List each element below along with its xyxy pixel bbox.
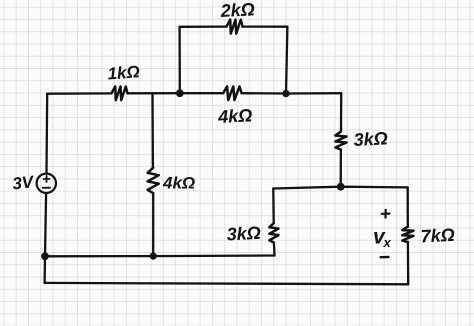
- node A (junction top rail / 2k loop left): [176, 89, 184, 97]
- resistor R6 3kΩ (vertical, bottom middle): [269, 223, 278, 243]
- wire: top rail left segment (corner to 1k resistor): [47, 92, 111, 95]
- wire: node D down to bottom rail: [43, 256, 46, 283]
- wire: 2k loop left vertical: [178, 27, 180, 93]
- wire: middle rail (left end to node C to right corner): [273, 187, 407, 189]
- wire: 2k loop top-left segment: [180, 25, 227, 27]
- svg-text:3kΩ: 3kΩ: [353, 128, 388, 150]
- wire: 7k lower lead up from bottom rail: [407, 242, 410, 284]
- wire: 3k right lower lead to node C: [340, 150, 342, 187]
- wire: top rail between node A and 4k horizontal: [180, 92, 223, 94]
- wire: 4k vertical branch upper lead: [151, 93, 154, 167]
- node E (junction lower rail / 4k vertical): [150, 253, 157, 260]
- resistor R5 3kΩ (vertical, right): [335, 132, 346, 150]
- svg-text:1kΩ: 1kΩ: [107, 62, 140, 83]
- wire: right branch corner down to 3k: [340, 93, 343, 131]
- node D (junction lower rail / source / bottom rail): [41, 252, 49, 260]
- resistor R1 1kΩ (horizontal, top-left): [112, 87, 128, 101]
- node B (junction top rail / 2k loop right): [282, 90, 289, 97]
- resistor R7 7kΩ (vertical, far right): [402, 227, 413, 243]
- node C (junction middle rail / 3k right): [337, 183, 345, 191]
- label vx minus sign: [381, 256, 389, 259]
- voltage source plus sign: [44, 176, 50, 182]
- label vx plus sign: [382, 210, 390, 218]
- svg-text:3V: 3V: [11, 172, 35, 193]
- wire: 2k loop top-right segment: [243, 25, 288, 27]
- resistor R4 2kΩ (horizontal, top loop): [227, 20, 243, 34]
- wire: 4k vertical branch lower lead to node E: [152, 193, 154, 256]
- svg-text:x: x: [383, 235, 392, 250]
- voltage source V1 3V (circle): [37, 174, 56, 193]
- wire: bottom 3k lower lead: [273, 243, 276, 256]
- svg-text:7kΩ: 7kΩ: [420, 225, 455, 247]
- wire: 7k upper lead to middle rail: [407, 187, 409, 226]
- voltage source minus sign: [43, 187, 50, 189]
- wire: 2k loop right vertical: [286, 27, 287, 94]
- wire: lower rail from node D to bottom 3k: [45, 254, 275, 257]
- wire: source bottom to node D: [45, 193, 46, 256]
- wire: top rail node B to right corner: [286, 92, 341, 95]
- svg-text:2kΩ: 2kΩ: [219, 0, 255, 21]
- wire: top rail between 1k and node A: [128, 92, 180, 94]
- resistor R3 4kΩ (horizontal, middle): [223, 86, 242, 100]
- wire: left branch down from top-left corner to source: [45, 94, 48, 174]
- resistor R2 4kΩ (vertical, middle): [148, 168, 159, 194]
- wire: top rail between 4k horizontal and node B: [242, 92, 286, 95]
- wire: bottom rail: [45, 283, 409, 284]
- svg-text:4kΩ: 4kΩ: [162, 174, 195, 193]
- svg-text:4kΩ: 4kΩ: [217, 105, 253, 127]
- svg-text:3kΩ: 3kΩ: [226, 223, 261, 245]
- wire: bottom 3k upper lead: [272, 189, 275, 224]
